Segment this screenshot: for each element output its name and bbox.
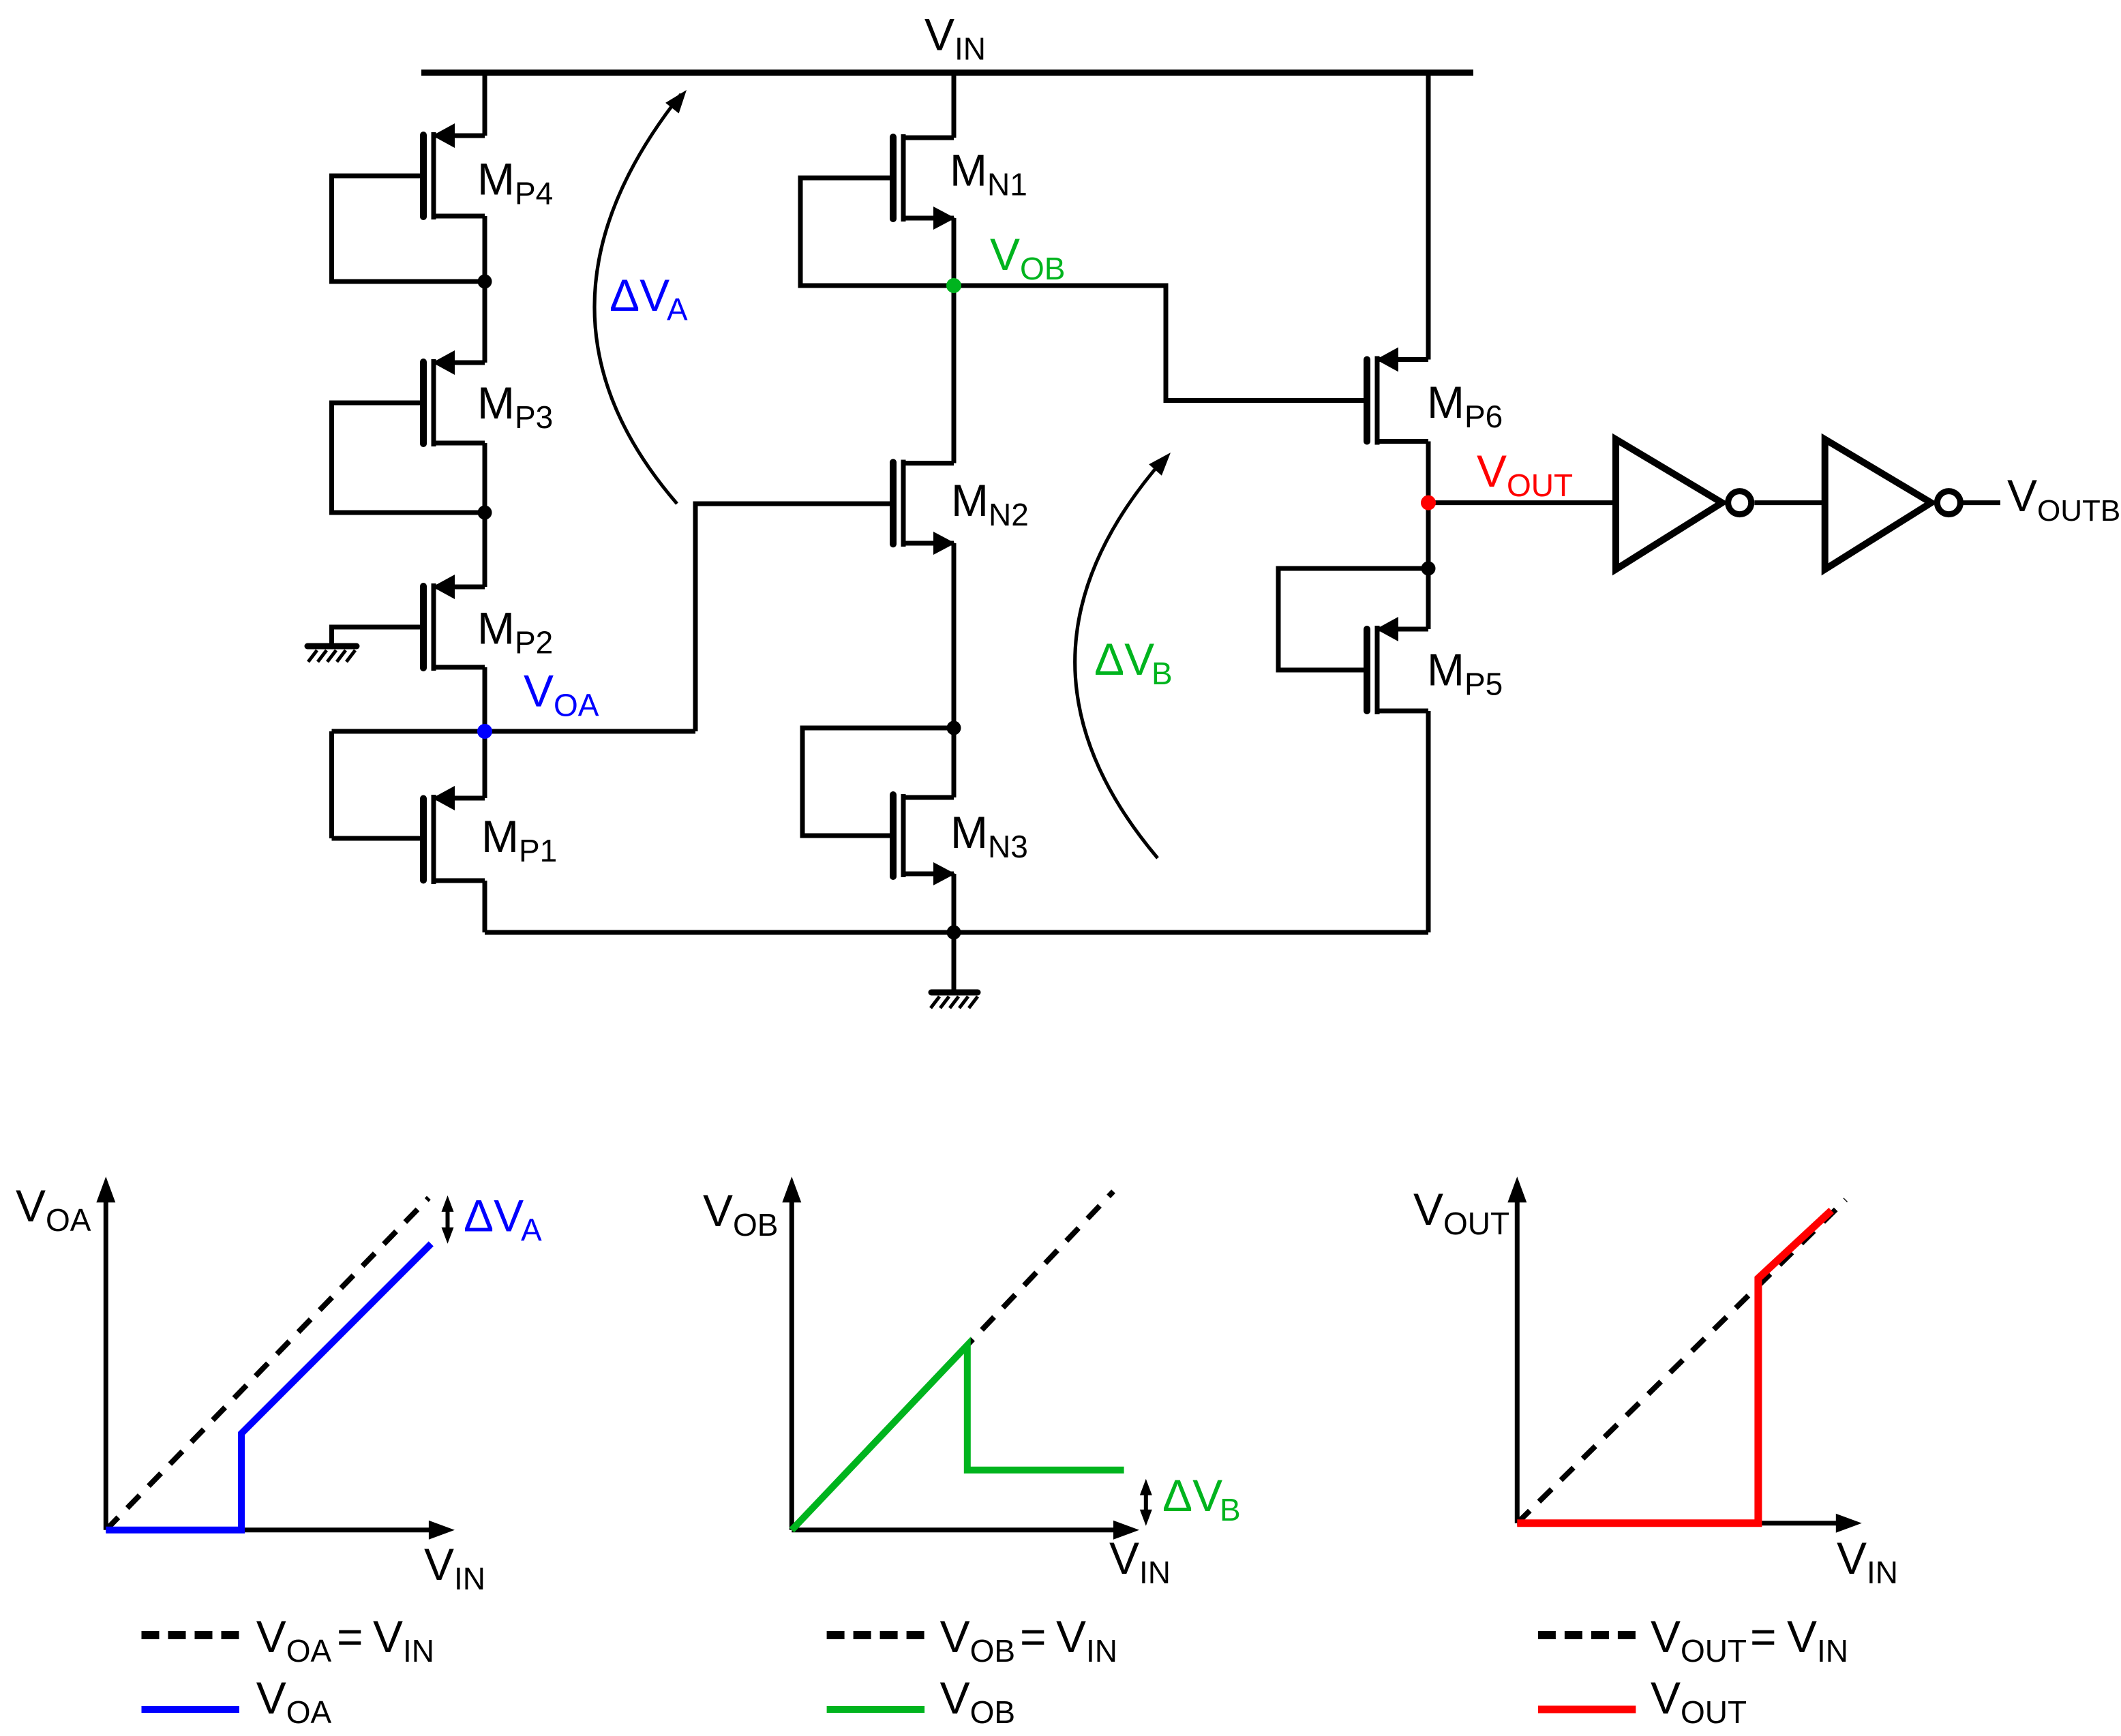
svg-text:V: V [703, 1185, 733, 1236]
svg-text:V: V [256, 1673, 286, 1723]
graph1 legend blue [142, 1706, 240, 1713]
svg-text:OB: OB [733, 1207, 778, 1243]
svg-text:OA: OA [554, 688, 599, 723]
graph1 legend dashed [142, 1631, 240, 1639]
svg-text:N2: N2 [989, 497, 1029, 532]
graph3 axes [1515, 1200, 1520, 1523]
svg-text:V: V [1837, 1533, 1867, 1583]
svg-text:M: M [1427, 645, 1464, 695]
wire [952, 932, 957, 990]
svg-text:V: V [990, 229, 1020, 279]
svg-text:M: M [477, 378, 515, 428]
wire VOB [954, 286, 1367, 401]
svg-text:IN: IN [1086, 1633, 1117, 1669]
svg-text:B: B [1152, 656, 1173, 691]
transistor MP6 [1375, 356, 1380, 445]
svg-text:V: V [924, 10, 954, 60]
svg-text:V: V [2007, 470, 2037, 521]
graph3 legend red [1538, 1706, 1636, 1714]
wire [1426, 73, 1431, 360]
graph3 dashed VOUT=VIN [1517, 1200, 1846, 1523]
inverter U1 bubble [1728, 491, 1751, 515]
svg-text:ΔV: ΔV [1162, 1470, 1222, 1521]
wire [483, 73, 487, 136]
svg-text:V: V [524, 666, 554, 716]
svg-text:IN: IN [454, 1561, 485, 1596]
svg-text:B: B [1220, 1492, 1241, 1527]
transistor MP3 [432, 359, 436, 446]
wire VOUT [1428, 500, 1613, 505]
svg-text:=: = [337, 1611, 363, 1662]
ground [307, 643, 357, 650]
svg-text:A: A [521, 1212, 542, 1247]
svg-text:M: M [481, 811, 519, 862]
svg-text:M: M [477, 154, 515, 204]
power rail VIN [421, 70, 1473, 76]
svg-text:P4: P4 [515, 176, 553, 211]
svg-text:IN: IN [1139, 1555, 1171, 1590]
node [478, 275, 492, 289]
svg-text:OA: OA [286, 1694, 332, 1730]
wire [483, 731, 487, 798]
svg-text:M: M [951, 475, 989, 526]
svg-text:OB: OB [1020, 251, 1065, 286]
svg-text:P2: P2 [515, 625, 553, 660]
node VOB [946, 278, 961, 293]
ground [931, 990, 978, 996]
node VOUT [1421, 496, 1436, 511]
graph2 dashed VOB=VIN [792, 1191, 1113, 1530]
svg-text:OB: OB [970, 1694, 1015, 1730]
graph3 legend dashed [1538, 1631, 1636, 1639]
graph3 curve VOUT [1517, 1210, 1831, 1523]
wire [952, 728, 957, 797]
arc dVB [1075, 457, 1165, 858]
wire [483, 667, 487, 731]
wire [1426, 442, 1431, 503]
svg-text:OB: OB [970, 1633, 1015, 1669]
svg-text:OA: OA [286, 1633, 332, 1669]
svg-text:V: V [16, 1181, 46, 1231]
wire [952, 73, 957, 138]
transistor MN2 [901, 460, 906, 547]
svg-text:OUT: OUT [1681, 1694, 1747, 1730]
node VOA [477, 724, 492, 739]
svg-text:IN: IN [1867, 1555, 1898, 1590]
svg-text:OUT: OUT [1681, 1633, 1747, 1669]
node [478, 506, 492, 520]
wire [802, 728, 954, 836]
wire [1426, 503, 1431, 568]
graph2 legend green [827, 1706, 925, 1713]
svg-text:N1: N1 [987, 167, 1027, 202]
wire [1426, 711, 1431, 932]
svg-text:P5: P5 [1464, 667, 1503, 702]
wire VOA [332, 729, 696, 734]
svg-text:M: M [950, 145, 987, 196]
svg-text:M: M [477, 603, 515, 654]
wire [483, 281, 487, 363]
wire [332, 403, 485, 513]
svg-text:V: V [1056, 1611, 1086, 1662]
svg-text:V: V [940, 1611, 970, 1662]
graph1 curve VOA [106, 1244, 431, 1530]
svg-text:M: M [1427, 377, 1464, 427]
svg-text:V: V [373, 1611, 403, 1662]
wire [1278, 568, 1428, 670]
svg-text:V: V [1651, 1611, 1681, 1662]
transistor MP4 [432, 132, 436, 219]
svg-text:V: V [1787, 1611, 1817, 1662]
svg-text:P1: P1 [519, 833, 557, 868]
svg-text:IN: IN [954, 31, 986, 67]
svg-text:IN: IN [1817, 1633, 1848, 1669]
graph2 dVB arrow [1144, 1489, 1148, 1517]
wire [952, 874, 957, 932]
inverter U2 [1825, 440, 1931, 570]
wire [1426, 568, 1431, 629]
wire [332, 836, 424, 841]
svg-text:V: V [424, 1539, 454, 1589]
wire [483, 216, 487, 281]
svg-text:P3: P3 [515, 399, 553, 435]
svg-text:V: V [1651, 1673, 1681, 1723]
svg-text:V: V [940, 1673, 970, 1723]
graph1 dVA arrow [446, 1205, 450, 1234]
wire [483, 443, 487, 513]
wire [952, 543, 957, 728]
svg-text:OUT: OUT [1507, 468, 1573, 503]
svg-text:OUTB: OUTB [2037, 494, 2120, 528]
transistor MP2 [432, 583, 436, 671]
svg-text:=: = [1020, 1611, 1047, 1662]
wire [695, 504, 893, 731]
wire [332, 627, 424, 643]
wire [483, 881, 487, 932]
svg-text:M: M [950, 807, 988, 857]
svg-text:A: A [667, 292, 688, 327]
svg-text:ΔV: ΔV [464, 1190, 524, 1240]
graph1 axes [104, 1200, 108, 1530]
svg-text:IN: IN [403, 1633, 434, 1669]
inverter U2 bubble [1937, 491, 1960, 515]
svg-text:OUT: OUT [1443, 1206, 1509, 1241]
wire rail bottom [485, 930, 1428, 935]
inverter U1 [1616, 440, 1722, 570]
wire [952, 286, 957, 463]
graph1 dashed VOA=VIN [106, 1198, 429, 1529]
wire [483, 513, 487, 587]
transistor MN3 [901, 794, 906, 877]
svg-text:OA: OA [46, 1202, 91, 1238]
wire [1754, 500, 1824, 505]
svg-text:ΔV: ΔV [1094, 634, 1154, 684]
transistor MP1 [432, 795, 436, 884]
svg-text:V: V [1109, 1533, 1139, 1583]
arc dVA [595, 94, 681, 504]
svg-text:N3: N3 [988, 829, 1028, 864]
wire [952, 218, 957, 286]
wire [329, 731, 334, 838]
graph2 legend dashed [827, 1631, 925, 1639]
node [947, 721, 961, 735]
graph2 curve VOB [792, 1345, 1124, 1530]
graph2 axes [789, 1200, 794, 1530]
wire [800, 178, 954, 286]
wire [1961, 500, 2001, 505]
transistor MP5 [1375, 626, 1380, 714]
wire [332, 176, 485, 281]
node [1421, 562, 1436, 576]
node [947, 926, 961, 940]
svg-text:ΔV: ΔV [610, 270, 670, 320]
svg-text:V: V [1477, 446, 1507, 496]
transistor MN1 [901, 134, 906, 222]
svg-text:=: = [1750, 1611, 1777, 1662]
svg-text:V: V [256, 1611, 286, 1662]
svg-text:V: V [1413, 1184, 1443, 1234]
svg-text:P6: P6 [1464, 399, 1503, 434]
